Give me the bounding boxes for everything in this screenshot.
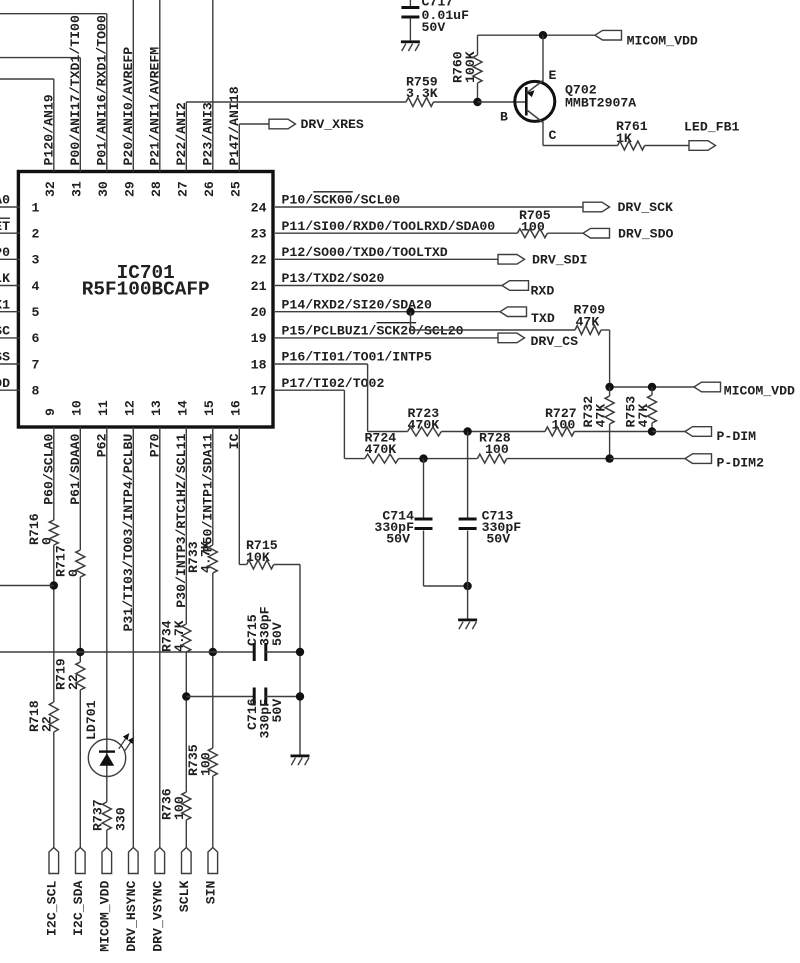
port DRV_SDO [583, 226, 673, 241]
resistor R727 labels [545, 406, 577, 433]
svg-text:X1: X1 [0, 297, 10, 312]
label C713 value 330pF [482, 520, 522, 535]
wire R723 to R727 [441, 431, 545, 433]
svg-text:6: 6 [32, 331, 40, 346]
wire pin11 lower [106, 830, 108, 848]
label C714 voltage 50V [386, 532, 410, 547]
svg-text:DRV_XRES: DRV_XRES [301, 117, 364, 132]
label C713 [482, 509, 514, 524]
svg-text:11: 11 [96, 400, 111, 416]
svg-text:50V: 50V [486, 532, 510, 547]
overline SCK00 [313, 191, 353, 193]
wire pin26 to top edge [212, 0, 214, 172]
pin number 6 [32, 331, 40, 346]
svg-text:100: 100 [198, 752, 213, 776]
pin 10 label P61/SDAA0 [68, 433, 83, 504]
pin 4 stub and label [0, 271, 20, 286]
svg-text:100: 100 [172, 796, 187, 820]
wire pin18 to R723 [368, 431, 408, 433]
resistor R719 labels [53, 658, 81, 690]
pin 9 label P60/SCLA0 [41, 433, 56, 504]
wire pin15 upper [212, 427, 214, 545]
IC IC701 part number R5F100BCAFP [82, 279, 210, 301]
pin 32 label P120/AN19 [41, 94, 56, 165]
svg-text:DRV_SDO: DRV_SDO [618, 226, 673, 241]
node wire1-R753 [648, 427, 656, 435]
svg-text:SCLK: SCLK [177, 880, 192, 912]
pin number 19 [251, 331, 267, 346]
port I2C_SCL [45, 848, 60, 937]
svg-text:30: 30 [96, 181, 111, 197]
wire R727 to R753 [574, 431, 652, 433]
wire C713 branch upper [467, 432, 469, 519]
pin number 9 [43, 408, 58, 416]
transistor Q702 collector diagonal [526, 110, 543, 123]
pin 15 label P50/INTP1/SDA11 [200, 434, 215, 553]
wire C714 branch lower [424, 531, 468, 587]
resistor R716 [49, 520, 58, 545]
svg-text:21: 21 [251, 279, 267, 294]
resistor R715 labels [246, 538, 278, 565]
port DRV_XRES [269, 117, 364, 132]
pin 19 label P15/PCLBUZ1/SCK20/SCL20 [282, 324, 464, 339]
pin number 20 [251, 305, 267, 320]
transistor Q702 circle [515, 81, 555, 121]
capacitor C716 [253, 688, 268, 706]
svg-text:470K: 470K [365, 442, 397, 457]
svg-text:7: 7 [32, 357, 40, 372]
resistor R732 labels [581, 396, 609, 428]
svg-text:MICOM_VDD: MICOM_VDD [627, 34, 698, 49]
node R753 top [648, 383, 656, 391]
port DRV_SCK [583, 200, 673, 215]
svg-text:P16/TI01/TO01/INTP5: P16/TI01/TO01/INTP5 [282, 350, 432, 365]
resistor R709 [575, 326, 601, 335]
node C716 right [296, 692, 304, 700]
svg-text:22: 22 [251, 253, 267, 268]
svg-text:DRV_VSYNC: DRV_VSYNC [151, 880, 166, 951]
wire C717 to ground [409, 18, 411, 40]
svg-text:SC: SC [0, 324, 10, 339]
svg-text:DRV_HSYNC: DRV_HSYNC [124, 880, 139, 951]
wire emitter [542, 35, 544, 81]
node TXD branch [406, 308, 414, 316]
pin 8 stub and label [0, 376, 20, 391]
resistor R718 labels [27, 700, 55, 732]
node pin15 y652 [209, 648, 217, 656]
svg-text:SIN: SIN [204, 880, 219, 904]
svg-text:DRV_CS: DRV_CS [531, 334, 579, 349]
svg-text:17: 17 [251, 384, 267, 399]
node pin14 y696 [182, 692, 190, 700]
wire pin13 [159, 427, 161, 848]
wire C714 branch upper [423, 459, 425, 519]
svg-text:0: 0 [66, 569, 81, 577]
wire pin14 upper [185, 427, 187, 624]
resistor R737 labels [91, 799, 129, 831]
wire R759 to base node [434, 101, 478, 103]
wire pin18 bend [275, 364, 368, 432]
resistor R761 [618, 141, 645, 150]
pin number 8 [32, 384, 40, 399]
resistor R728 [477, 454, 506, 463]
node base junction [473, 98, 481, 106]
transistor Q702 base bar [525, 87, 528, 116]
label C717 value 0.01uF [422, 8, 470, 23]
pin 23 label P11/SI00/RXD0/TOOLRXD/SDA00 [282, 219, 496, 234]
wire R709 to rail [601, 330, 610, 387]
label Q702 [565, 83, 597, 98]
pin 3 stub and label [0, 245, 20, 260]
pin number 10 [70, 400, 85, 416]
svg-text:14: 14 [176, 400, 191, 416]
port MICOM_VDD bottom [98, 848, 113, 952]
resistor R759 labels [406, 75, 438, 102]
svg-text:P10/SCK00/SCL00: P10/SCK00/SCL00 [282, 193, 401, 208]
wire pin12 [132, 427, 134, 848]
pin 1 stub and label [0, 193, 20, 208]
resistor R724 [365, 454, 399, 463]
port P-DIM2 [685, 454, 764, 471]
pin number 28 [149, 181, 164, 197]
port DRV_VSYNC [151, 848, 166, 952]
label C714 value 330pF [374, 520, 414, 535]
resistor R724 labels [365, 431, 397, 458]
wire C716 right [266, 696, 301, 698]
wire base [478, 101, 526, 103]
wire to P-DIM [652, 431, 685, 433]
transistor Q702 emitter diagonal [526, 81, 543, 98]
label C716 [245, 698, 260, 730]
pin 11 label P62 [94, 433, 109, 457]
pin 16 label IC [227, 433, 242, 449]
wire pin27 riser [185, 102, 187, 172]
wire collector [543, 122, 618, 146]
resistor R735 labels [186, 744, 214, 776]
resistor R715 [247, 560, 274, 569]
pin number 11 [96, 400, 111, 416]
node C715 right [296, 648, 304, 656]
wire C717 top [409, 0, 411, 9]
svg-text:E: E [549, 68, 557, 83]
resistor R732 [605, 387, 614, 459]
pin 29 label P20/ANI0/AVREFP [121, 47, 136, 166]
svg-text:26: 26 [202, 181, 217, 197]
label C [549, 128, 557, 143]
label C715 value 330pF [258, 606, 273, 646]
wire pin24 to DRV_SCK [275, 206, 583, 208]
resistor R718 [49, 702, 58, 732]
capacitor C714 [415, 518, 433, 531]
node C714-C713 join [463, 582, 471, 590]
label MMBT2907A [565, 96, 636, 111]
wire R761 to LED_FB1 [645, 145, 689, 147]
svg-text:4: 4 [32, 279, 40, 294]
wire pin14 lower [185, 820, 187, 848]
svg-text:R5F100BCAFP: R5F100BCAFP [82, 279, 210, 301]
wire pin15 mid [212, 573, 214, 748]
svg-text:20: 20 [251, 305, 267, 320]
svg-text:LD701: LD701 [84, 700, 99, 740]
pin 22 label P12/SO00/TXD0/TOOLTXD [282, 245, 448, 260]
svg-text:C: C [549, 128, 557, 143]
pin number 17 [251, 384, 267, 399]
wire pin10 lower [79, 690, 81, 848]
wire pin21 to RXD [275, 285, 502, 287]
ground below C717 [401, 40, 420, 51]
resistor R723 [408, 427, 442, 436]
svg-text:P13/TXD2/SO20: P13/TXD2/SO20 [282, 271, 385, 286]
resistor R753 labels [624, 396, 652, 428]
overline SCK20 [377, 322, 417, 324]
pin number 16 [229, 400, 244, 416]
wire pin22 to DRV_SDI [275, 258, 498, 260]
pin number 27 [176, 181, 191, 197]
resistor R733 [208, 545, 217, 573]
wire pin9 upper [53, 427, 55, 520]
LED LD701 arrow1 [119, 733, 130, 749]
svg-text:MMBT2907A: MMBT2907A [565, 96, 636, 111]
wire pin9 lower [53, 732, 55, 848]
wire pin17 to R724 [344, 458, 364, 460]
label C716 voltage 50V [270, 699, 285, 723]
wire pin10 upper [79, 427, 81, 550]
resistor R733 labels [186, 541, 214, 573]
IC IC701 name [117, 262, 175, 284]
label E [549, 68, 557, 83]
svg-text:15: 15 [202, 400, 217, 416]
svg-text:P-DIM: P-DIM [717, 429, 757, 444]
pin number 23 [251, 227, 267, 242]
wire MICOM_VDD rail right [610, 386, 694, 388]
pin number 26 [202, 181, 217, 197]
port MICOM_VDD right [694, 382, 795, 398]
svg-text:LK: LK [0, 271, 10, 286]
wire C715 right [266, 651, 301, 653]
svg-text:SS: SS [0, 350, 10, 365]
node pin9 left-wire [50, 581, 58, 589]
svg-text:P15/PCLBUZ1/SCK20/SCL20: P15/PCLBUZ1/SCK20/SCL20 [282, 324, 464, 339]
pin 18 label P16/TI01/TO01/INTP5 [282, 350, 432, 365]
node wire1-C713 [463, 427, 471, 435]
resistor R760 labels [451, 51, 479, 83]
pin number 22 [251, 253, 267, 268]
svg-text:9: 9 [43, 408, 58, 416]
svg-text:5: 5 [32, 305, 40, 320]
port LED_FB1 [684, 120, 739, 151]
label C715 voltage 50V [270, 622, 285, 646]
resistor R760 [473, 35, 482, 102]
svg-text:RXD: RXD [531, 284, 555, 299]
resistor R737 [102, 802, 111, 830]
pin 6 stub and label [0, 324, 20, 339]
pin number 31 [70, 181, 85, 197]
svg-text:18: 18 [251, 357, 267, 372]
pin 26 label P23/ANI3 [200, 102, 215, 165]
LED LD701 cathode bar [99, 750, 115, 752]
svg-text:31: 31 [70, 181, 85, 197]
wire pin15 lower [212, 776, 214, 848]
svg-text:MICOM_VDD: MICOM_VDD [98, 880, 113, 951]
pin number 21 [251, 279, 267, 294]
capacitor C713 [459, 518, 477, 531]
svg-text:27: 27 [176, 181, 191, 197]
pin 24 label P10/SCK00/SCL00 [282, 193, 401, 208]
pin 2 stub and label [0, 218, 20, 234]
pin number 12 [123, 400, 138, 416]
svg-text:P0: P0 [0, 245, 10, 260]
svg-text:I2C_SDA: I2C_SDA [71, 881, 86, 936]
ground below x300 [291, 755, 310, 766]
pin number 24 [251, 200, 267, 215]
wire R705 to DRV_SDO [547, 232, 583, 234]
resistor R728 labels [479, 431, 511, 458]
resistor R735 [208, 748, 217, 776]
wire R715 to x300 [274, 565, 300, 755]
svg-text:32: 32 [43, 181, 58, 197]
svg-text:P11/SI00/RXD0/TOOLRXD/SDA00: P11/SI00/RXD0/TOOLRXD/SDA00 [282, 219, 496, 234]
svg-text:3: 3 [32, 253, 40, 268]
wire TXD branch down [410, 312, 412, 330]
wire pin28 to top edge [159, 0, 161, 172]
node pin10 y652 [76, 648, 84, 656]
svg-text:29: 29 [123, 181, 138, 197]
svg-text:P12/SO00/TXD0/TOOLTXD: P12/SO00/TXD0/TOOLTXD [282, 245, 448, 260]
resistor R719 [76, 662, 85, 690]
wire pin25 to DRV_XRES [239, 123, 269, 125]
wire pin25 riser [238, 124, 240, 172]
svg-text:50V: 50V [386, 532, 410, 547]
resistor R709 labels [574, 303, 606, 330]
port TXD [500, 307, 555, 326]
resistor R759 [406, 98, 434, 107]
svg-text:8: 8 [32, 384, 40, 399]
resistor R736 labels [159, 788, 187, 820]
pin 13 label P70 [147, 433, 162, 457]
port DRV_SDI [498, 253, 587, 268]
wire net y652 [0, 651, 254, 653]
svg-text:DRV_SCK: DRV_SCK [618, 200, 673, 215]
pin 21 label P13/TXD2/SO20 [282, 271, 385, 286]
wire pin11 [106, 427, 108, 802]
port MICOM_VDD top [595, 30, 698, 48]
svg-text:19: 19 [251, 331, 267, 346]
wire pin27 to R759 [186, 101, 406, 103]
ground below C713 [458, 619, 477, 630]
node wire2-R732 [605, 454, 613, 462]
resistor R761 labels [616, 119, 648, 146]
label B [500, 110, 508, 125]
svg-text:10: 10 [70, 400, 85, 416]
port P-DIM [685, 427, 756, 445]
IC IC701 body [18, 172, 273, 428]
LED LD701 arrow2 [125, 737, 134, 751]
label C717 [422, 0, 454, 10]
port DRV_HSYNC [124, 848, 139, 952]
wire pin32 to left edge [0, 79, 54, 172]
port DRV_CS [498, 333, 578, 349]
svg-text:12: 12 [123, 400, 138, 416]
wire to R709 [411, 329, 576, 331]
wire R728 to R732 [507, 458, 610, 460]
pin 12 label P31/TI03/TO03/INTP4/PCLBU [121, 434, 136, 632]
pin 31 label P00/ANI17/TXD1/TI00 [68, 15, 83, 165]
wire pin17 bend [275, 390, 344, 458]
pin 25 label P147/ANI18 [227, 86, 242, 165]
label C717 voltage 50V [422, 20, 446, 35]
label C716 value 330pF [258, 699, 273, 739]
node wire2-C714 [419, 454, 427, 462]
svg-text:16: 16 [229, 400, 244, 416]
node E-rail junction [539, 31, 547, 39]
wire to P-DIM2 [610, 458, 685, 460]
wire C713 to ground [467, 531, 469, 619]
resistor R734 [182, 624, 191, 652]
pin 30 label P01/ANI16/RXD1/TO00 [94, 15, 109, 165]
capacitor C717 [401, 6, 419, 19]
pin 17 label P17/TI02/TO02 [282, 376, 385, 391]
pin number 7 [32, 357, 40, 372]
resistor R736 [182, 792, 191, 820]
wire pin29 to top edge [132, 0, 134, 172]
pin 20 label P14/RXD2/SI20/SDA20 [282, 297, 432, 312]
resistor R717 labels [53, 545, 81, 577]
resistor R723 labels [408, 406, 440, 433]
pin number 30 [96, 181, 111, 197]
svg-text:TXD: TXD [531, 311, 555, 326]
svg-text:I2C_SCL: I2C_SCL [45, 881, 60, 936]
pin number 25 [229, 181, 244, 197]
pin number 1 [32, 200, 40, 215]
svg-text:330: 330 [113, 807, 128, 831]
label C715 [245, 614, 260, 646]
svg-text:DRV_SDI: DRV_SDI [532, 253, 587, 268]
pin number 2 [32, 227, 40, 242]
LED LD701 triangle [99, 753, 114, 765]
resistor R727 [545, 427, 574, 436]
pin 14 label P30/INTP3/RTC1HZ/SCL11 [174, 434, 189, 608]
pin 5 stub and label [0, 297, 20, 312]
wire pin19 to DRV_CS [275, 337, 498, 339]
svg-text:A0: A0 [0, 193, 10, 208]
pin number 5 [32, 305, 40, 320]
svg-text:P17/TI02/TO02: P17/TI02/TO02 [282, 376, 385, 391]
wire pin16 riser [239, 427, 246, 565]
resistor R753 [648, 387, 657, 432]
wire left net y585 [0, 585, 54, 587]
wire pin14 mid [185, 652, 187, 792]
wire R724 to R728 [399, 458, 478, 460]
pin number 3 [32, 253, 40, 268]
capacitor C715 [253, 643, 268, 661]
resistor R734 labels [159, 620, 187, 652]
svg-text:LED_FB1: LED_FB1 [684, 120, 739, 135]
wire pin30 to left edge [0, 14, 107, 172]
pin number 18 [251, 357, 267, 372]
svg-text:DD: DD [0, 376, 10, 391]
svg-text:1: 1 [32, 200, 40, 215]
svg-text:24: 24 [251, 200, 267, 215]
LED LD701 label [84, 700, 99, 740]
wire pin31 to left edge [0, 58, 80, 172]
port RXD [502, 281, 554, 299]
pin number 13 [149, 400, 164, 416]
wire net y696 [186, 696, 254, 698]
resistor R705 labels [519, 208, 551, 235]
pin number 14 [176, 400, 191, 416]
svg-text:28: 28 [149, 181, 164, 197]
resistor R717 [76, 550, 85, 577]
